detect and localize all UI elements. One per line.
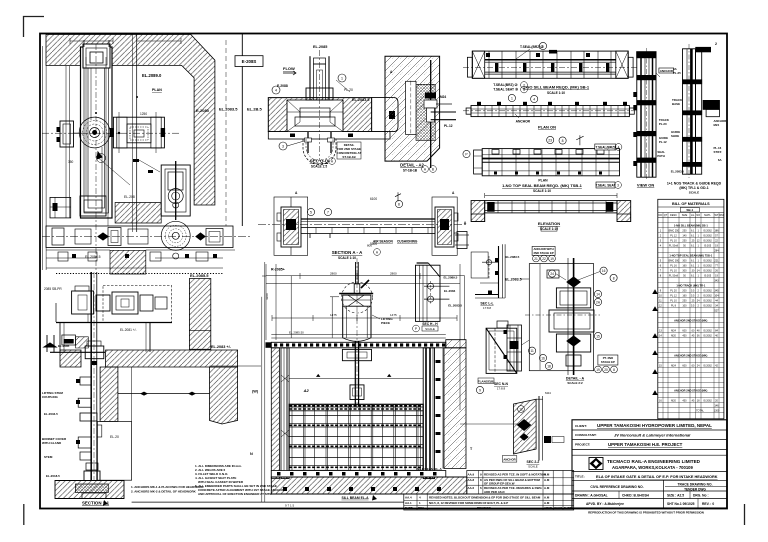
svg-text:EL.2081 +/-: EL.2081 +/- [120,328,137,332]
svg-text:2800: 2800 [330,272,337,276]
svg-text:PL.12: PL.12 [444,124,453,128]
elev deck top lines [271,337,446,339]
svg-text:100: 100 [682,304,687,307]
detail SEC 2-2 hatched [514,396,565,461]
svg-text:RM: RM [720,214,724,217]
svg-text:IS:2062: IS:2062 [703,304,712,307]
svg-text:800: 800 [367,244,372,248]
svg-text:SIZE: SIZE [682,214,688,217]
secqq bolts [305,132,335,153]
svg-text:IS:2062: IS:2062 [703,299,712,302]
svg-text:104: 104 [714,294,719,297]
svg-text:11: 11 [530,349,534,353]
svg-text:OF GROUP EP-SEA.W: OF GROUP EP-SEA.W [484,482,515,486]
svg-text:527: 527 [714,309,719,312]
svg-text:4: 4 [618,145,620,149]
svg-text:1: 1 [542,45,544,49]
svg-text:IS:2062: IS:2062 [703,399,712,402]
plan leader dots [95,96,165,173]
svg-text:EL.2083.5: EL.2083.5 [352,98,370,102]
svg-text:EL.2089.0: EL.2089.0 [142,73,162,78]
plan lower hatched block [115,203,161,224]
svg-text:600: 600 [682,329,687,332]
svg-text:SCALE 1:5: SCALE 1:5 [311,165,328,169]
svg-text:221: 221 [714,259,719,262]
svg-text:CLIENT:: CLIENT: [575,424,587,428]
svg-text:600: 600 [682,364,687,367]
svg-text:250: 250 [682,239,687,242]
plan bypass valve assembly [161,161,190,220]
detailA2 grout speckle [416,84,435,140]
svg-text:EL.2089.5: EL.2089.5 [444,276,458,280]
plan gate slot tower [80,40,112,218]
detailA2 anchor bolt [424,60,456,168]
sill beam SB-1 elevation [463,51,637,78]
svg-text:IS:2062: IS:2062 [703,294,712,297]
svg-text:AGARPARA, WORKS,KOLKATA - 7001: AGARPARA, WORKS,KOLKATA - 700109 [612,465,693,470]
svg-text:16: 16 [602,269,606,273]
company logo [589,458,603,470]
elev left wall hatch [271,348,279,479]
svg-text:1-NO TOP SEAL BEAM (MK) TSB-1: 1-NO TOP SEAL BEAM (MK) TSB-1 [669,253,712,257]
sill beam plan on [463,102,637,117]
svg-text:STIFF: STIFF [714,150,722,154]
svg-text:16: 16 [541,357,545,361]
svg-text:8: 8 [613,276,615,280]
svg-text:SCALE: SCALE [425,327,435,331]
svg-text:1-NO TOP SEAL BEAM REQD. (MK): 1-NO TOP SEAL BEAM REQD. (MK) TSB-1 [502,183,583,188]
svg-text:PL 10: PL 10 [670,299,677,302]
section stem rod [90,272,92,481]
svg-text:300: 300 [682,259,687,262]
secqq white pocket [287,100,343,132]
plan dim ticks top [70,38,181,44]
svg-text:SEC H - H: SEC H - H [422,322,438,326]
svg-text:.45: .45 [691,399,695,402]
svg-text:EL.2084.5: EL.2084.5 [85,255,101,259]
svg-text:IS:305: IS:305 [704,274,712,277]
detail small flange top [455,232,469,249]
svg-text:2800: 2800 [390,272,397,276]
svg-text:20: 20 [604,368,608,372]
svg-text:17:8.8: 17:8.8 [483,306,491,310]
svg-text:18: 18 [547,365,551,369]
svg-text:6100: 6100 [370,197,377,201]
svg-text:7: 7 [327,211,329,215]
svg-text:FLOW: FLOW [283,66,295,71]
svg-text:450: 450 [682,334,687,337]
svg-text:PL 12: PL 12 [670,234,677,237]
elevation beam with concrete ends [471,193,631,222]
plan machine centerline [42,132,180,134]
svg-text:IS:305: IS:305 [704,244,712,247]
svg-text:6.1: 6.1 [691,234,695,237]
svg-text:9 7 1 5: 9 7 1 5 [285,504,295,508]
svg-text:WITH GLAND: WITH GLAND [42,441,62,445]
svg-text:PL.20: PL.20 [659,122,667,126]
elev mid dim line [272,317,457,319]
svg-text:STEM: STEM [44,455,53,459]
svg-text:17:8.8: 17:8.8 [497,387,506,391]
svg-text:343: 343 [714,279,719,282]
elev right wall hatch [444,348,466,469]
svg-text:TENDER DWG: TENDER DWG [684,487,706,491]
svg-text:6.1: 6.1 [691,244,695,247]
svg-text:JV Norconsult & Lahmeyer Inter: JV Norconsult & Lahmeyer International [614,432,691,437]
svg-text:SCALE: SCALE [528,464,538,468]
svg-text:ELA OF INTAKE GATE & DETAIL OF: ELA OF INTAKE GATE & DETAIL OF E.P. FOR … [596,475,718,479]
plan drum left bracket [57,121,81,147]
svg-text:AA.1: AA.1 [405,501,412,505]
svg-text:19: 19 [550,257,554,261]
plan main vertical centerline [136,34,138,232]
svg-text:1250: 1250 [140,112,147,116]
svg-text:5.5: 5.5 [691,289,695,292]
svg-text:IS:2062: IS:2062 [703,269,712,272]
svg-text:8: 8 [562,139,564,143]
svg-text:EL.2083 +/-: EL.2083 +/- [211,345,232,349]
svg-text:M20: M20 [671,399,676,402]
svg-text:SB-1: SB-1 [686,208,693,212]
svg-text:E-208S: E-208S [242,59,257,64]
svg-text:APVD. BY : A.Mukherjee: APVD. BY : A.Mukherjee [586,502,624,506]
svg-text:IS:2062: IS:2062 [703,264,712,267]
section dim line across chamber [131,367,133,421]
svg-text:1+1 NOS TRACK & GUIDE REQD: 1+1 NOS TRACK & GUIDE REQD [667,182,722,186]
bolt detail DETAIL-A [525,258,600,375]
svg-text:EL.2034.5: EL.2034.5 [44,412,58,416]
svg-text:6.1: 6.1 [691,229,695,232]
svg-text:SCALE 1:10: SCALE 1:10 [547,91,565,95]
svg-text:SHOE: SHOE [671,134,679,138]
svg-text:3: 3 [282,145,284,149]
svg-text:345: 345 [714,289,719,292]
svg-text:TITLE:: TITLE: [575,475,585,479]
svg-text:DRG. No :: DRG. No : [693,494,709,498]
svg-text:LG: LG [691,214,694,217]
svg-text:APVD: APVD [544,506,552,510]
svg-text:450: 450 [682,399,687,402]
svg-text:UPPER TAMAKOSHI HYDROPOWER LIM: UPPER TAMAKOSHI HYDROPOWER LIMITED, NEPA… [597,423,712,428]
svg-text:IS:2062: IS:2062 [703,259,712,262]
plan platform edge dotted [56,273,223,275]
svg-text:AA.9: AA.9 [468,472,475,476]
svg-text:T.SEAL SEAT: T.SEAL SEAT [595,183,615,187]
svg-text:FL 50x8: FL 50x8 [669,274,679,277]
svg-text:A.M: A.M [544,472,550,476]
section lower chamber outline [97,421,131,480]
svg-text:ST-1B-1B: ST-1B-1B [403,169,418,173]
svg-text:PLAN: PLAN [152,88,162,92]
svg-text:PLAN ON: PLAN ON [538,125,556,130]
detail SEC N-N tall [486,321,517,373]
svg-text:PL.25: PL.25 [673,71,681,75]
svg-text:2: 2 [715,42,717,46]
svg-text:DRAWN : A.GHOSAL: DRAWN : A.GHOSAL [575,494,608,498]
elev right guide column [423,348,434,479]
svg-text:1-NO SILL BEAM (MK) SB-1: 1-NO SILL BEAM (MK) SB-1 [674,223,709,227]
svg-text:QT: QT [664,214,668,217]
section concrete slab [60,350,81,367]
svg-text:3: 3 [617,183,619,187]
svg-text:REVISION: REVISION [477,506,491,510]
svg-text:EL.2083.5: EL.2083.5 [506,255,520,259]
elev hoist stem [330,258,373,410]
svg-text:PL 12: PL 12 [670,294,677,297]
svg-text:TOTAL: TOTAL [696,409,704,412]
svg-text:22: 22 [542,257,546,261]
plan left dim verticals [43,46,70,270]
svg-text:14: 14 [596,293,600,297]
svg-text:160: 160 [682,294,687,297]
plan lower hatch 2 [110,250,146,274]
svg-text:EL.2083.5: EL.2083.5 [219,107,238,112]
plan concrete hatched band [46,35,215,206]
svg-text:AIR SEASON: AIR SEASON [373,240,394,244]
svg-text:MATL: MATL [704,214,711,217]
corner mark top-left [24,17,45,38]
svg-text:ANCHOR 2ND STAGE (MK): ANCHOR 2ND STAGE (MK) [674,388,707,392]
svg-text:DETAIL - A: DETAIL - A [566,377,585,381]
svg-text:A.M: A.M [544,495,550,499]
svg-text:PL 10: PL 10 [670,269,677,272]
section concrete column A [100,367,118,421]
svg-text:PL 10: PL 10 [670,239,677,242]
svg-text:DATE: DATE [405,506,413,510]
section concrete wide column [210,367,238,424]
svg-text:BASE: BASE [672,102,680,106]
sheet frame [40,34,727,509]
svg-text:SCALE 1:10: SCALE 1:10 [533,189,551,193]
elev left guide column [281,348,289,479]
svg-text:IS:2062: IS:2062 [703,234,712,237]
svg-text:350: 350 [68,160,74,164]
svg-text:AA.4: AA.4 [405,495,412,499]
svg-text:SILL BEAM EL-A: SILL BEAM EL-A [341,496,369,500]
svg-text:1-NO SILL BEAM REQD. (MK) SB-1: 1-NO SILL BEAM REQD. (MK) SB-1 [523,85,590,90]
svg-text:23: 23 [548,139,552,143]
svg-text:6.1: 6.1 [691,264,695,267]
svg-text:.30: .30 [691,269,695,272]
svg-text:SCALE: SCALE [689,190,700,194]
svg-text:TECMACO RAIL-A ENGINEERING LI: TECMACO RAIL-A ENGINEERING LIMITED [607,459,701,464]
svg-text:CONSULTANT:: CONSULTANT: [575,433,597,437]
svg-text:EL.208: EL.208 [124,195,135,199]
svg-text:UPPER TAMAKOSHI H.E. PROJECT: UPPER TAMAKOSHI H.E. PROJECT [608,442,683,447]
svg-text:M20: M20 [671,334,676,337]
svg-text:NO.5, 8, 12 REVISED FOR SOME D: NO.5, 8, 12 REVISED FOR SOME DIMN OF BOL… [429,501,508,505]
svg-text:PIECE: PIECE [381,321,390,325]
plan right wall lines [241,34,243,226]
svg-text:A.M: A.M [544,486,550,490]
svg-text:6.1: 6.1 [691,259,695,262]
svg-text:(W): (W) [252,390,259,394]
svg-text:PL 20: PL 20 [670,289,677,292]
svg-text:AND APPROVAL OF ERECTION ENGIN: AND APPROVAL OF ERECTION ENGINEER AT SIT… [198,492,271,496]
svg-text:1300: 1300 [714,409,720,412]
svg-text:19: 19 [596,368,600,372]
svg-text:140: 140 [682,234,687,237]
svg-text:TRACE DRAWING NO.: TRACE DRAWING NO. [678,483,713,487]
svg-text:.60: .60 [691,364,695,367]
svg-text:4200: 4200 [265,293,269,300]
svg-text:AA.8: AA.8 [468,478,475,482]
svg-text:IS:2062: IS:2062 [703,239,712,242]
svg-text:FL 50x8: FL 50x8 [669,244,679,247]
section concrete upper column [189,279,210,350]
track column side [683,44,720,178]
detailA2 concrete block [385,56,440,161]
svg-text:M24: M24 [545,391,551,395]
track column VIEW ON [633,48,656,181]
svg-text:8: 8 [613,368,615,372]
svg-text:EL.2084: EL.2084 [444,289,456,293]
svg-text:ADD PER AS.D: ADD PER AS.D [484,490,505,494]
svg-text:NO: NO [696,214,700,217]
svg-text:EL.2085: EL.2085 [313,45,327,49]
svg-text:PL.20: PL.20 [344,88,353,92]
svg-text:M24: M24 [671,364,676,367]
svg-text:CHKD: CHKD [554,506,562,510]
section chamber lines [118,393,210,395]
plan tower extra verticals [86,57,106,208]
elev bottom sill band [271,471,446,478]
svg-text:250: 250 [682,299,687,302]
secaa beam web [258,219,466,238]
svg-text:9: 9 [479,389,481,393]
svg-text:PATH: PATH [657,154,664,158]
detailA2 white slot [406,81,416,134]
svg-text:DESC: DESC [670,214,677,217]
corner mark bottom-left [23,504,25,525]
secaa left post [274,197,308,255]
svg-text:EL.2083.5: EL.2083.5 [671,170,685,174]
svg-text:CIVIL REFERENCE DRAWING NO.: CIVIL REFERENCE DRAWING NO. [590,485,643,489]
svg-text:FLANGE(B): FLANGE(B) [478,379,495,383]
svg-text:6.1: 6.1 [691,274,695,277]
elev gate grid [289,404,423,470]
svg-text:VIEW ON: VIEW ON [637,183,654,188]
svg-text:IS:2062: IS:2062 [703,329,712,332]
section pedestal blocks [62,335,76,345]
detail SEC K-K [416,263,450,321]
section footing [55,481,124,499]
svg-text:ELEVATION: ELEVATION [538,221,560,226]
svg-text:ANCHOR: ANCHOR [660,69,674,73]
svg-text:ANCHOR: ANCHOR [516,120,531,124]
svg-text:PROJECT:: PROJECT: [575,443,590,447]
bottom strip line [132,501,404,503]
svg-text:R-2085+: R-2085+ [271,268,285,272]
svg-text:5.5: 5.5 [691,304,695,307]
svg-text:ST-1B-1B: ST-1B-1B [342,155,356,159]
plan motor assembly [110,112,165,153]
svg-text:.25: .25 [691,299,695,302]
svg-text:A.M: A.M [544,501,550,505]
svg-text:EL.2085.50: EL.2085.50 [289,331,304,335]
svg-text:COUPLING: COUPLING [42,395,59,399]
svg-text:4: 4 [533,98,535,102]
svg-text:5: 5 [310,211,312,215]
svg-text:ISMC 250: ISMC 250 [668,229,680,232]
plan roller shaft band [42,221,252,250]
svg-text:21: 21 [534,257,538,261]
elev top dim lines [262,262,465,502]
svg-text:EL.2B.5: EL.2B.5 [247,107,262,112]
elev deck band with ties [266,342,446,348]
svg-text:1: 1 [511,97,513,101]
svg-text:EL.2085: EL.2085 [58,344,70,348]
svg-text:1: 1 [341,77,343,81]
svg-text:REVISED AS PER TCE. IN SOFT &: REVISED AS PER TCE. IN SOFT & NOTATION [484,472,546,476]
secqq concrete band [268,98,371,132]
svg-text:2ND STAGE EP: 2ND STAGE EP [533,251,553,255]
svg-text:T.SEAL SEAT ③: T.SEAL SEAT ③ [493,88,518,92]
svg-text:15: 15 [596,335,600,339]
svg-text:1-NO TRACK (MK) TR-1: 1-NO TRACK (MK) TR-1 [676,283,706,287]
svg-text:CUSHIONING: CUSHIONING [397,240,418,244]
svg-text:8: 8 [398,203,400,207]
svg-text:M24: M24 [671,329,676,332]
svg-text:PL 16: PL 16 [670,264,677,267]
svg-text:N: N [250,452,253,456]
svg-text:EL.2018.5: EL.2018.5 [46,474,60,478]
svg-text:E-2085: E-2085 [196,108,210,113]
plan lower platform rows [46,250,235,261]
svg-text:1475: 1475 [330,313,337,317]
svg-text:REV. : 0: REV. : 0 [702,502,714,506]
svg-text:AA.6: AA.6 [468,486,475,490]
svg-text:REV: REV [418,506,424,510]
svg-text:STAGE EP: STAGE EP [601,360,615,364]
svg-text:EL.2083.5: EL.2083.5 [505,278,522,282]
top seal beam TSB-1 plan [474,149,620,176]
svg-text:ANCHOR: ANCHOR [503,457,515,461]
detail left column stack [504,325,522,371]
svg-text:B: B [432,168,434,172]
secqq dashed U [303,139,336,165]
svg-text:PLAN: PLAN [538,179,548,183]
svg-text:SCALE 1:10: SCALE 1:10 [540,227,558,231]
plan hoist drum circle [79,117,110,162]
secqq stem [306,50,333,160]
svg-text:.45: .45 [691,334,695,337]
svg-text:.60: .60 [691,329,695,332]
svg-text:E.2088: E.2088 [277,84,288,88]
svg-text:IS:2062: IS:2062 [703,364,712,367]
svg-text:EL.2083.5: EL.2083.5 [448,304,462,308]
svg-text:A2: A2 [303,388,310,393]
svg-text:2. ANCHORS MK-2 & DETAIL OF HE: 2. ANCHORS MK-2 & DETAIL OF HEADWORK [131,490,197,494]
svg-text:200: 200 [682,289,687,292]
svg-text:SEC N-N: SEC N-N [494,382,508,386]
svg-text:ISMC 300: ISMC 300 [668,259,680,262]
svg-text:NO: NO [659,214,663,217]
svg-text:186: 186 [714,229,719,232]
svg-text:IS:2062: IS:2062 [703,289,712,292]
svg-text:4: 4 [275,89,277,93]
svg-text:ANCHOR 2ND STAGE (MK): ANCHOR 2ND STAGE (MK) [674,318,707,322]
wire leader [522,340,530,345]
svg-text:SEC Q-Q: SEC Q-Q [310,159,329,164]
svg-text:T.SEAL(BRZ): T.SEAL(BRZ) [595,145,615,149]
elev waterline [289,378,423,380]
svg-text:12: 12 [519,408,523,412]
svg-text:.25: .25 [691,239,695,242]
svg-text:250: 250 [682,229,687,232]
svg-text:BILL OF MATERIALS: BILL OF MATERIALS [672,202,710,206]
secaa right post [432,197,458,255]
